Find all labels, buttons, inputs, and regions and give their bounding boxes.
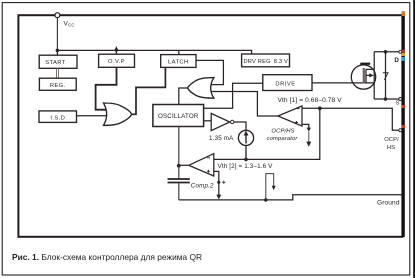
arrow to ground rail [216,195,221,200]
wire OSCILLATOR to inverter [204,120,212,122]
svg-text:1.35 mA: 1.35 mA [209,135,234,142]
hook reference arrow [266,174,274,200]
wire START to REG (double) [57,68,59,78]
block LATCH [161,55,196,68]
gate OR1 [104,103,132,125]
op-amp comparator Comp.2 [189,154,214,176]
node drain junction [384,50,388,54]
wire bus to OVP [115,47,117,55]
wire comparator1 top input rail [302,108,399,130]
wire ground rail [179,195,402,200]
svg-text:DRV REG: DRV REG [244,59,271,65]
node source junction [384,97,388,101]
svg-text:comparator: comparator [267,136,299,142]
arrow ground [306,142,311,147]
scan color mark blue [402,57,405,61]
wire Vcc bus [57,50,251,54]
block DRIVE [263,75,312,91]
svg-text:Ground: Ground [377,200,400,207]
svg-text:D: D [394,57,399,64]
diode body branch [385,52,387,99]
Vcc terminal circle [55,13,60,18]
wire comp2 output [179,164,189,166]
node Vcc bus junction [56,49,60,53]
wire inverter to current source [234,122,246,130]
svg-text:O.V.P: O.V.P [108,59,125,65]
capacitor C1 top lead [178,166,180,179]
svg-text:DRIVE: DRIVE [275,81,295,87]
inverter U3 [211,113,230,130]
wire OR1 output to LATCH [131,67,165,114]
node current source junction [244,158,248,162]
svg-text:OCP/: OCP/ [384,137,399,143]
arrow small [307,128,311,132]
svg-text:HS: HS [387,145,395,151]
node OVP bus junction [115,48,119,52]
pin S circle [399,98,402,101]
block DRV REG 8.3V [242,54,290,67]
svg-text:OCP/HS: OCP/HS [271,129,294,135]
wire DRIVE to MOSFET gate [312,82,374,84]
IC boundary box [18,15,402,237]
svg-text:OSCILLATOR: OSCILLATOR [158,113,199,120]
transistor Q1 MOSFET [351,65,375,89]
capacitor C1 bottom lead [178,183,180,200]
scan black edge right [413,0,415,278]
IC right edge thick bar [402,12,405,237]
wire OSCILLATOR to DRIVE [204,83,263,108]
node comp2 minus junction [217,181,220,184]
wire OVP to OR1 [96,67,117,109]
scan color mark red [402,50,405,53]
plus mark [295,121,298,124]
block START [39,55,77,68]
wire drain rail [374,51,399,53]
capacitor C1 [168,179,190,183]
svg-text:S: S [396,100,400,106]
wire bus to START [56,50,58,55]
wire OSCILLATOR to comp2 node [178,127,180,166]
wire LATCH to OR2 input [196,60,223,84]
scan color mark orange top [402,12,405,16]
wire comp2 top input [214,108,320,159]
op-amp comparator OCP/HS U1 [278,106,302,126]
node comp2 output junction [177,164,181,168]
svg-text:REG.: REG. [50,83,66,89]
current source 1.35mA [238,130,253,145]
svg-text:Vth [2] = 1.3–1.6 V: Vth [2] = 1.3–1.6 V [218,163,274,170]
scan color mark red 3 [402,125,405,128]
block ISD [39,111,77,123]
wire comparator1 bottom input to sink [302,124,309,128]
wire MOSFET right vertical [373,52,375,99]
svg-text:VCC: VCC [64,21,75,28]
minus mark [297,108,300,110]
svg-text:I.S.D: I.S.D [50,115,65,121]
scan color mark yellow [402,53,405,56]
minus mark comp2 [207,157,210,159]
pin D circle [399,50,402,53]
svg-text:Рис. 1. Блок-схема контроллера: Рис. 1. Блок-схема контроллера для режим… [12,252,202,262]
wire Vcc down [56,18,58,51]
wire current source down [245,146,247,160]
wire source rail [374,98,399,100]
scan color mark red 2 [402,105,405,108]
block OVP [99,54,135,67]
node comparator1 input junction [318,106,322,110]
wire ISD to OR1 [77,115,107,117]
wire bus to LATCH [178,50,180,54]
pin OCP/HS circle [399,129,402,132]
wire comparator1 output to OR2 input [211,92,278,117]
block OSCILLATOR [153,105,204,127]
wire OR2 output to OSCILLATOR [179,88,188,105]
svg-text:Vth [1] = 0.68–0.78 V: Vth [1] = 0.68–0.78 V [278,97,343,104]
svg-text:Comp.2: Comp.2 [191,183,214,190]
svg-text:8.3 V: 8.3 V [274,59,288,65]
svg-text:LATCH: LATCH [168,59,189,65]
plus mark at node [222,181,225,184]
wire comp2 bottom input to ground [214,171,219,195]
node ground rail junction [264,198,268,202]
plus mark comp2 [207,170,210,173]
block REG [39,78,76,90]
svg-text:START: START [45,60,66,66]
gate OR2 (left facing) [188,78,214,99]
